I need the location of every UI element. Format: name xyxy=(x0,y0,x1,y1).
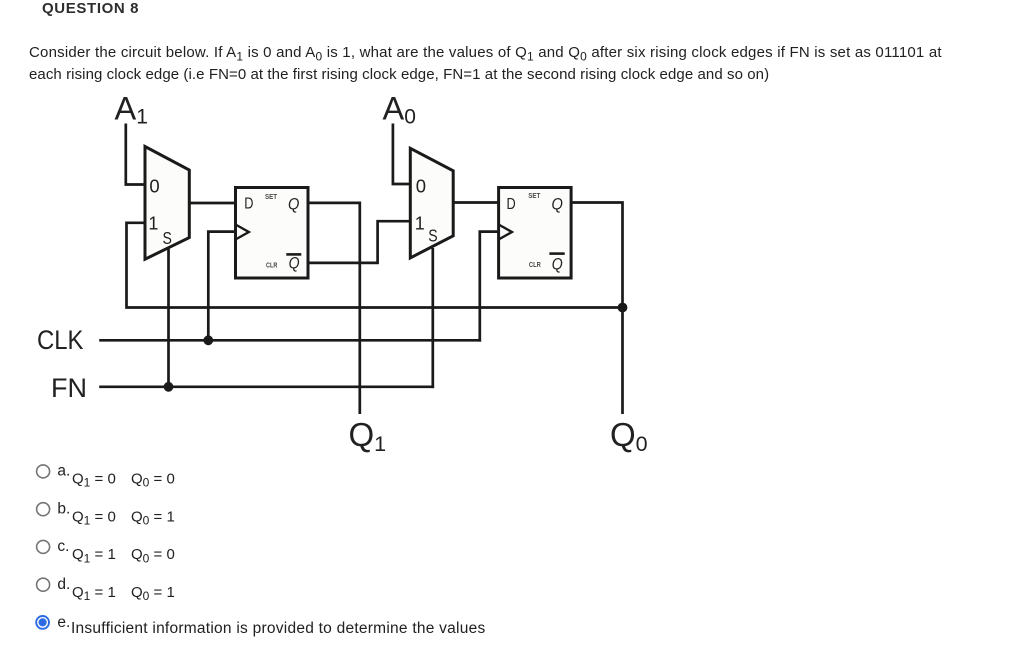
wire FF1 Q output to Q1 xyxy=(308,203,360,414)
svg-text:d.: d. xyxy=(57,576,70,593)
svg-text:1: 1 xyxy=(415,213,425,233)
svg-text:e.: e. xyxy=(57,614,70,631)
svg-text:S: S xyxy=(163,228,172,248)
multiplexer MUX2 xyxy=(410,148,453,258)
svg-text:b.: b. xyxy=(57,500,70,517)
svg-text:A0: A0 xyxy=(383,90,416,128)
svg-text:SET: SET xyxy=(528,193,541,200)
svg-text:CLR: CLR xyxy=(529,262,541,269)
svg-text:SET: SET xyxy=(265,194,278,201)
svg-text:Q1: Q1 xyxy=(349,416,387,456)
svg-text:Q0 = 1: Q0 = 1 xyxy=(131,584,175,603)
svg-text:Insufficient information is pr: Insufficient information is provided to … xyxy=(71,620,486,637)
svg-text:0: 0 xyxy=(149,176,159,197)
radio button option a xyxy=(37,465,50,478)
svg-text:A1: A1 xyxy=(115,90,148,128)
svg-text:QUESTION 8: QUESTION 8 xyxy=(42,0,139,17)
wire FF1 Qbar to MUX2 input 1 xyxy=(308,221,410,263)
svg-text:Q0: Q0 xyxy=(610,416,648,456)
wire CLK to FF2 clock input xyxy=(480,232,499,342)
wire MUX1 input 1 from Q0 feedback node xyxy=(127,223,623,308)
svg-text:Q1 = 1: Q1 = 1 xyxy=(72,546,116,565)
multiplexer MUX1 xyxy=(145,147,189,260)
svg-text:Q0 = 0: Q0 = 0 xyxy=(131,546,175,565)
svg-text:S: S xyxy=(428,226,437,246)
junction dot Q0 net to MUX1 feedback xyxy=(618,303,628,313)
svg-text:Q1 = 0: Q1 = 0 xyxy=(72,470,116,489)
wire FN bus xyxy=(99,385,434,388)
svg-text:D: D xyxy=(244,196,253,213)
radio button option d xyxy=(37,578,50,591)
wire A0 to MUX2 input 0 xyxy=(393,124,412,185)
wire MUX1 output to FF1 D xyxy=(189,202,235,205)
svg-text:Q: Q xyxy=(288,195,299,214)
junction dot MUX1 S on FN line xyxy=(164,382,174,392)
svg-text:1: 1 xyxy=(148,213,158,233)
svg-text:Q0 = 1: Q0 = 1 xyxy=(131,508,175,527)
svg-text:Q: Q xyxy=(289,253,300,272)
svg-text:Q: Q xyxy=(552,255,563,274)
wire MUX2 select S to FN line xyxy=(431,248,434,388)
radio button option c xyxy=(37,540,50,553)
wire MUX2 output to FF2 D xyxy=(453,201,498,204)
D flip-flop FF2 xyxy=(499,188,571,279)
radio button option e selected xyxy=(36,616,49,629)
svg-text:FN: FN xyxy=(51,373,87,403)
svg-text:0: 0 xyxy=(416,175,426,196)
svg-text:a.: a. xyxy=(57,462,70,479)
junction dot FF1 clock on CLK line xyxy=(203,335,213,345)
svg-text:Consider the circuit below. If: Consider the circuit below. If A1 is 0 a… xyxy=(29,44,942,63)
svg-text:CLK: CLK xyxy=(37,325,84,355)
svg-text:Q: Q xyxy=(552,195,563,214)
svg-text:Q1 = 0: Q1 = 0 xyxy=(72,508,116,527)
svg-text:each rising clock edge (i.e FN: each rising clock edge (i.e FN=0 at the … xyxy=(29,66,769,83)
wire A1 to MUX1 input 0 xyxy=(126,124,147,185)
radio button option b xyxy=(37,503,50,516)
wire CLK bus xyxy=(99,339,481,342)
svg-text:c.: c. xyxy=(57,538,69,555)
svg-text:CLR: CLR xyxy=(266,263,277,270)
D flip-flop FF1 xyxy=(236,188,309,279)
svg-text:D: D xyxy=(507,196,516,213)
wire FF2 Q output to Q0 xyxy=(571,203,622,415)
svg-text:Q0 = 0: Q0 = 0 xyxy=(131,470,175,489)
wire MUX1 select S to FN line xyxy=(167,249,170,387)
svg-text:Q1 = 1: Q1 = 1 xyxy=(72,584,116,603)
wire CLK to FF1 clock input xyxy=(208,232,235,341)
